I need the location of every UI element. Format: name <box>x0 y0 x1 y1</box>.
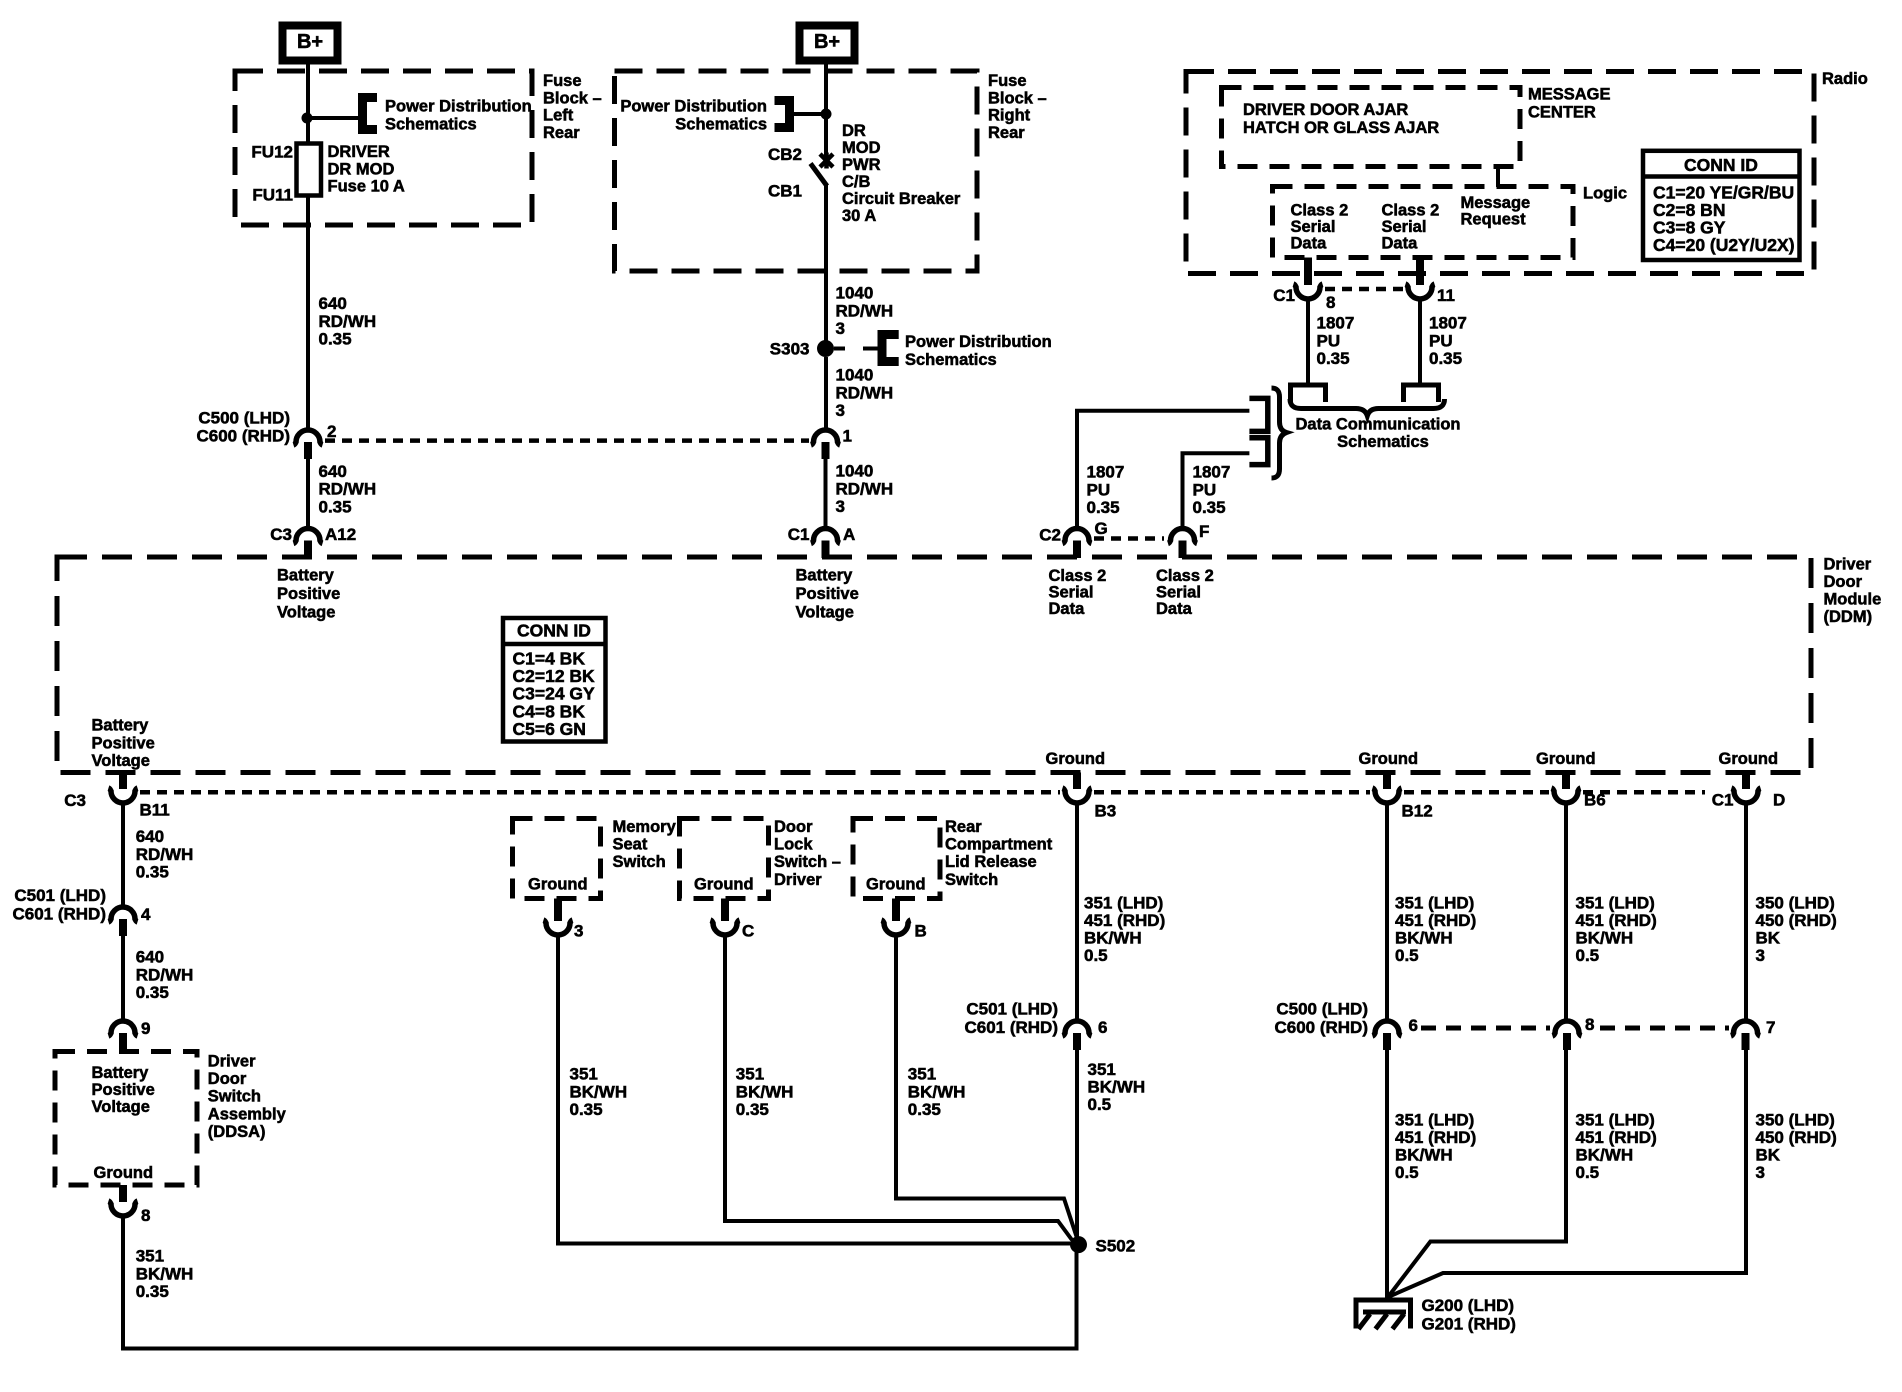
svg-text:Left: Left <box>543 107 574 125</box>
splice S303 <box>817 340 834 357</box>
svg-text:Class 2: Class 2 <box>1156 567 1214 585</box>
radio connector C1 pin 8 <box>1304 258 1312 286</box>
svg-text:HATCH OR GLASS AJAR: HATCH OR GLASS AJAR <box>1243 119 1439 137</box>
svg-text:0.35: 0.35 <box>1087 498 1120 517</box>
svg-text:B: B <box>915 922 927 941</box>
svg-text:Schematics: Schematics <box>1337 433 1429 451</box>
svg-text:640: 640 <box>319 462 347 481</box>
svg-text:0.35: 0.35 <box>570 1100 603 1119</box>
svg-text:CONN ID: CONN ID <box>1684 155 1758 175</box>
svg-text:Voltage: Voltage <box>796 603 854 621</box>
svg-text:351 (LHD): 351 (LHD) <box>1395 1111 1474 1130</box>
svg-text:PU: PU <box>1429 331 1453 350</box>
svg-text:PU: PU <box>1317 331 1341 350</box>
svg-text:C3: C3 <box>64 791 86 810</box>
svg-text:RD/WH: RD/WH <box>836 479 894 498</box>
svg-text:4: 4 <box>141 905 151 924</box>
svg-text:Serial: Serial <box>1382 218 1427 236</box>
svg-text:Ground: Ground <box>528 876 588 894</box>
dashed link between pins G and F <box>1094 536 1164 541</box>
fuse block - right rear dashed box <box>615 71 978 271</box>
svg-text:0.5: 0.5 <box>1395 946 1419 965</box>
svg-text:DRIVER: DRIVER <box>328 143 390 161</box>
svg-text:Power Distribution: Power Distribution <box>905 333 1052 351</box>
svg-text:Ground: Ground <box>1359 750 1419 768</box>
svg-text:451 (RHD): 451 (RHD) <box>1576 1128 1657 1147</box>
svg-text:D: D <box>1773 791 1785 810</box>
connector pin B at rear compartment lid release switch <box>892 899 900 922</box>
svg-text:BK/WH: BK/WH <box>1576 929 1634 948</box>
svg-text:350 (LHD): 350 (LHD) <box>1756 1111 1835 1130</box>
svg-text:Message: Message <box>1461 194 1531 212</box>
svg-text:C5=6 GN: C5=6 GN <box>513 719 586 739</box>
svg-text:0.35: 0.35 <box>1193 498 1226 517</box>
connector pin 8 (right) <box>1553 1021 1582 1036</box>
svg-text:351: 351 <box>570 1065 598 1084</box>
node: junction dot on B+ feed <box>302 113 313 124</box>
svg-text:11: 11 <box>1437 286 1455 305</box>
svg-text:BK/WH: BK/WH <box>136 1264 194 1283</box>
svg-text:0.5: 0.5 <box>1576 946 1600 965</box>
svg-text:C1: C1 <box>1712 791 1734 810</box>
logic dashed box <box>1273 187 1574 258</box>
svg-text:0.5: 0.5 <box>1084 946 1108 965</box>
svg-text:Data: Data <box>1291 235 1328 253</box>
svg-text:0.5: 0.5 <box>1088 1095 1112 1114</box>
svg-text:G: G <box>1095 519 1108 538</box>
node: junction dot on breaker feed <box>821 109 832 120</box>
wire: D to connector 7, circuit 350/450 BK 3 <box>1744 803 1748 1020</box>
svg-text:S303: S303 <box>770 340 810 359</box>
svg-text:PU: PU <box>1193 480 1217 499</box>
svg-text:0.35: 0.35 <box>1429 349 1462 368</box>
svg-text:Driver: Driver <box>1824 556 1872 574</box>
off-page connector bracket (power distribution schematics, right) <box>775 101 790 128</box>
svg-text:C2: C2 <box>1039 526 1061 545</box>
svg-text:8: 8 <box>1326 293 1335 312</box>
wire: connector 4 to connector 9, circuit 640 RD/WH 0.35 <box>121 936 125 1020</box>
brace grouping DDM class 2 wires <box>1272 388 1287 478</box>
svg-text:Schematics: Schematics <box>385 116 477 134</box>
svg-text:RD/WH: RD/WH <box>136 845 194 864</box>
svg-text:BK/WH: BK/WH <box>736 1082 794 1101</box>
svg-text:Module: Module <box>1824 591 1882 609</box>
wire: fuse to connector C500 pin 2, circuit 640 RD/WH 0.35 <box>306 196 310 429</box>
svg-text:7: 7 <box>1766 1018 1775 1037</box>
svg-text:2: 2 <box>327 422 336 441</box>
svg-text:BK/WH: BK/WH <box>1576 1146 1634 1165</box>
svg-text:Door: Door <box>208 1070 247 1088</box>
svg-text:1807: 1807 <box>1429 314 1467 333</box>
svg-text:C/B: C/B <box>842 173 871 191</box>
connector pin B12 at DDM bottom <box>1383 773 1391 790</box>
door lock switch - driver dashed box <box>680 819 769 899</box>
svg-text:Positive: Positive <box>92 734 155 752</box>
svg-text:0.35: 0.35 <box>908 1100 941 1119</box>
connector pin C at door lock switch <box>721 899 729 922</box>
fuse block - left rear dashed box <box>235 71 532 225</box>
svg-text:Serial: Serial <box>1049 584 1094 602</box>
svg-text:C601 (RHD): C601 (RHD) <box>964 1018 1058 1037</box>
radio module dashed box <box>1186 72 1814 274</box>
rear compartment lid release switch dashed box <box>853 819 940 899</box>
svg-text:CENTER: CENTER <box>1528 104 1596 122</box>
svg-text:BK: BK <box>1756 1146 1781 1165</box>
svg-text:C601 (RHD): C601 (RHD) <box>12 905 106 924</box>
svg-text:RD/WH: RD/WH <box>836 383 894 402</box>
wire: memory seat switch to S502, circuit 351 BK/WH 0.35 <box>558 936 1071 1244</box>
wire: connector 7 to ground G200, circuit 350/450 BK 3 <box>1388 1050 1746 1297</box>
battery feed B+ terminal (left fuse block) <box>283 26 338 61</box>
svg-text:351: 351 <box>908 1065 936 1084</box>
svg-text:351 (LHD): 351 (LHD) <box>1084 894 1163 913</box>
connector pin 9 at DDSA <box>109 1021 138 1036</box>
svg-text:C1: C1 <box>1273 286 1295 305</box>
svg-text:0.35: 0.35 <box>136 863 169 882</box>
svg-text:Fuse: Fuse <box>543 72 582 90</box>
svg-text:C600 (RHD): C600 (RHD) <box>196 427 290 446</box>
off-page connector bracket (power distribution schematics) <box>363 98 378 130</box>
wire: B6 to connector 8 (right), circuit 351/451 BK/WH 0.5 <box>1564 803 1568 1020</box>
svg-text:Data Communication: Data Communication <box>1295 416 1460 434</box>
svg-text:450 (RHD): 450 (RHD) <box>1756 911 1837 930</box>
svg-text:0.35: 0.35 <box>136 983 169 1002</box>
svg-text:6: 6 <box>1098 1018 1107 1037</box>
svg-text:0.35: 0.35 <box>319 330 352 349</box>
svg-text:MESSAGE: MESSAGE <box>1528 86 1611 104</box>
svg-text:Class 2: Class 2 <box>1049 567 1107 585</box>
svg-text:Door: Door <box>1824 573 1863 591</box>
svg-text:RD/WH: RD/WH <box>136 965 194 984</box>
svg-text:Serial: Serial <box>1291 218 1336 236</box>
svg-text:Switch: Switch <box>945 871 998 889</box>
svg-text:B3: B3 <box>1095 802 1117 821</box>
svg-text:PWR: PWR <box>842 156 881 174</box>
wire: B12 to connector 6 (right), circuit 351/451 BK/WH 0.5 <box>1385 803 1389 1020</box>
svg-text:351 (LHD): 351 (LHD) <box>1576 1111 1655 1130</box>
connector pin B3 at DDM bottom <box>1073 773 1081 790</box>
svg-text:BK/WH: BK/WH <box>570 1082 628 1101</box>
svg-text:Voltage: Voltage <box>92 1098 150 1116</box>
svg-text:0.5: 0.5 <box>1395 1163 1419 1182</box>
wire: connector 1 to connector C1 pin A, circuit 1040 RD/WH 3 <box>824 459 828 527</box>
svg-text:FU12: FU12 <box>251 143 293 162</box>
svg-text:Block –: Block – <box>988 89 1047 107</box>
wire: message center to logic block (message request) <box>1496 167 1500 188</box>
svg-text:9: 9 <box>141 1019 150 1038</box>
svg-text:BK/WH: BK/WH <box>1395 929 1453 948</box>
svg-text:DR MOD: DR MOD <box>328 160 395 178</box>
svg-text:640: 640 <box>136 948 164 967</box>
svg-text:3: 3 <box>574 922 583 941</box>
svg-text:Circuit Breaker: Circuit Breaker <box>842 190 961 208</box>
svg-text:Ground: Ground <box>1046 750 1106 768</box>
wire: radio pin 8 down, circuit 1807 PU 0.35 <box>1306 300 1310 384</box>
wire: door lock switch to S502, circuit 351 BK/WH 0.35 <box>725 936 1072 1241</box>
svg-text:1040: 1040 <box>836 366 874 385</box>
svg-text:451 (RHD): 451 (RHD) <box>1576 911 1657 930</box>
circuit breaker CB1/CB2 DR MOD PWR C/B 30 A <box>820 153 833 169</box>
svg-text:0.35: 0.35 <box>736 1100 769 1119</box>
svg-text:640: 640 <box>136 827 164 846</box>
wire: B3 to connector 6, circuit 351/451 BK/WH 0.5 <box>1075 803 1079 1020</box>
svg-text:B11: B11 <box>140 801 170 820</box>
svg-text:3: 3 <box>1756 1163 1765 1182</box>
connector pin 7 <box>1731 1021 1760 1036</box>
svg-text:Power Distribution: Power Distribution <box>620 98 767 116</box>
svg-text:C500 (LHD): C500 (LHD) <box>198 409 290 428</box>
svg-text:F: F <box>1199 522 1209 541</box>
svg-text:0.5: 0.5 <box>1576 1163 1600 1182</box>
wire: connector 6 to splice S502, circuit 351 BK/WH 0.5 <box>1075 1050 1079 1244</box>
radio connector C1 pin 11 <box>1416 258 1424 286</box>
svg-text:1040: 1040 <box>836 462 874 481</box>
svg-text:C501 (LHD): C501 (LHD) <box>14 886 106 905</box>
svg-text:Schematics: Schematics <box>675 116 767 134</box>
svg-text:Assembly: Assembly <box>208 1105 287 1123</box>
svg-text:Rear: Rear <box>543 124 580 142</box>
svg-text:Ground: Ground <box>94 1164 154 1182</box>
svg-text:3: 3 <box>836 319 845 338</box>
svg-text:Ground: Ground <box>1536 750 1596 768</box>
wire: DDM pin G to bracket, circuit 1807 PU 0.35 <box>1077 411 1249 527</box>
svg-text:351: 351 <box>1088 1060 1116 1079</box>
svg-text:RD/WH: RD/WH <box>319 312 377 331</box>
wire: rear compartment switch to S502, circuit 351 BK/WH 0.35 <box>896 936 1077 1239</box>
svg-text:Radio: Radio <box>1822 70 1868 88</box>
svg-text:350 (LHD): 350 (LHD) <box>1756 894 1835 913</box>
wire: connector 6 to ground G200, circuit 351/451 BK/WH 0.5 <box>1385 1050 1389 1298</box>
svg-text:Door: Door <box>774 818 813 836</box>
svg-text:C1: C1 <box>788 525 810 544</box>
svg-text:6: 6 <box>1409 1016 1418 1035</box>
svg-text:CB2: CB2 <box>768 145 802 164</box>
goes-to bracket under radio pin 8 wire <box>1291 385 1326 402</box>
dotted harness line under DDM <box>140 790 1060 795</box>
svg-text:1: 1 <box>843 427 852 446</box>
svg-text:Rear: Rear <box>945 818 982 836</box>
svg-text:B+: B+ <box>297 31 323 53</box>
radio CONN ID table <box>1643 151 1800 260</box>
battery feed B+ terminal (right fuse block) <box>800 26 855 61</box>
svg-text:1807: 1807 <box>1087 463 1125 482</box>
svg-text:1807: 1807 <box>1193 463 1231 482</box>
svg-text:Data: Data <box>1049 600 1086 618</box>
dashed harness link between connector pins 2 and 1 <box>325 438 809 443</box>
wire: junction to off-page bracket <box>307 116 360 120</box>
svg-text:Lock: Lock <box>774 836 813 854</box>
svg-text:CB1: CB1 <box>768 182 802 201</box>
svg-text:PU: PU <box>1087 480 1111 499</box>
svg-text:DRIVER DOOR AJAR: DRIVER DOOR AJAR <box>1243 101 1408 119</box>
svg-text:0.35: 0.35 <box>136 1282 169 1301</box>
svg-text:Right: Right <box>988 107 1031 125</box>
svg-text:Class 2: Class 2 <box>1291 202 1349 220</box>
svg-text:8: 8 <box>1585 1015 1594 1034</box>
svg-text:450 (RHD): 450 (RHD) <box>1756 1128 1837 1147</box>
wire: breaker to splice S303, circuit 1040 RD/WH 3 <box>824 184 828 341</box>
svg-text:Block –: Block – <box>543 89 602 107</box>
svg-text:MOD: MOD <box>842 139 881 157</box>
svg-text:351: 351 <box>136 1247 164 1266</box>
svg-text:Class 2: Class 2 <box>1382 202 1440 220</box>
wire: B+ down to circuit breaker <box>824 60 828 158</box>
svg-text:Data: Data <box>1156 600 1193 618</box>
wire: B11 to connector 4, circuit 640 RD/WH 0.35 <box>121 803 125 906</box>
goes-to bracket under radio pin 11 wire <box>1404 385 1439 402</box>
connector pin 3 at memory seat switch <box>554 899 562 922</box>
ground G200 (LHD) / G201 (RHD) <box>1356 1300 1411 1329</box>
svg-text:(DDM): (DDM) <box>1824 608 1873 626</box>
svg-text:451 (RHD): 451 (RHD) <box>1084 911 1165 930</box>
svg-text:Switch: Switch <box>208 1088 261 1106</box>
svg-text:1040: 1040 <box>836 284 874 303</box>
svg-text:Logic: Logic <box>1583 185 1627 203</box>
off-page connector bracket at S303 (power distribution schematics) <box>882 335 899 362</box>
svg-text:A12: A12 <box>325 525 356 544</box>
svg-text:(DDSA): (DDSA) <box>208 1123 266 1141</box>
fuse FU12/FU11 DRIVER DR MOD Fuse 10 A <box>297 144 322 196</box>
svg-text:Schematics: Schematics <box>905 351 997 369</box>
svg-text:Ground: Ground <box>866 876 926 894</box>
svg-text:451 (RHD): 451 (RHD) <box>1395 911 1476 930</box>
svg-text:Memory: Memory <box>613 818 677 836</box>
goes-to bracket for DDM class 2 wire F <box>1249 438 1267 465</box>
svg-text:451 (RHD): 451 (RHD) <box>1395 1128 1476 1147</box>
svg-text:FU11: FU11 <box>252 186 293 205</box>
connector pin F at DDM <box>1168 529 1197 544</box>
svg-text:Switch: Switch <box>613 853 666 871</box>
svg-text:Fuse 10 A: Fuse 10 A <box>328 178 405 196</box>
connector C500/C600 pin 1 <box>811 430 840 445</box>
svg-text:G200 (LHD): G200 (LHD) <box>1422 1296 1515 1315</box>
svg-text:C500 (LHD): C500 (LHD) <box>1276 1000 1368 1019</box>
svg-text:Ground: Ground <box>694 876 754 894</box>
svg-text:BK/WH: BK/WH <box>908 1082 966 1101</box>
svg-text:Driver: Driver <box>208 1053 256 1071</box>
svg-text:Lid Release: Lid Release <box>945 853 1037 871</box>
svg-text:0.35: 0.35 <box>319 497 352 516</box>
svg-text:351: 351 <box>736 1065 764 1084</box>
goes-to bracket for DDM class 2 wire G <box>1249 398 1267 431</box>
wire: connector 2 to connector C3 pin A12, circuit 640 RD/WH 0.35 <box>306 459 310 527</box>
svg-text:RD/WH: RD/WH <box>319 480 377 499</box>
svg-text:8: 8 <box>141 1206 150 1225</box>
svg-text:Driver: Driver <box>774 871 822 889</box>
svg-text:S502: S502 <box>1096 1237 1136 1256</box>
brace grouping radio data wires <box>1290 399 1445 416</box>
wire: S303 to connector pin 1, circuit 1040 RD/WH 3 <box>824 357 828 429</box>
wire: DDM pin F to bracket, circuit 1807 PU 0.35 <box>1183 453 1250 527</box>
DDM CONN ID table <box>503 618 606 742</box>
svg-text:Battery: Battery <box>92 717 150 735</box>
wire: radio pin 11 down, circuit 1807 PU 0.35 <box>1418 300 1422 384</box>
svg-text:Serial: Serial <box>1156 584 1201 602</box>
svg-text:Seat: Seat <box>613 836 648 854</box>
driver door switch assembly (DDSA) dashed box <box>55 1052 197 1186</box>
svg-text:Voltage: Voltage <box>92 752 150 770</box>
svg-text:Battery: Battery <box>92 1064 150 1082</box>
svg-text:351 (LHD): 351 (LHD) <box>1576 894 1655 913</box>
svg-text:B12: B12 <box>1402 802 1433 821</box>
svg-text:A: A <box>843 525 855 544</box>
svg-text:Voltage: Voltage <box>277 603 335 621</box>
svg-text:Switch –: Switch – <box>774 853 841 871</box>
dashed link between pins 8 and 7 <box>1600 1026 1729 1031</box>
svg-text:1807: 1807 <box>1317 314 1355 333</box>
svg-text:30 A: 30 A <box>842 207 876 225</box>
svg-text:3: 3 <box>836 401 845 420</box>
svg-text:C: C <box>742 922 754 941</box>
svg-text:Rear: Rear <box>988 124 1025 142</box>
wire: B+ down into fuse block to fuse FU12 <box>306 60 310 144</box>
svg-text:B+: B+ <box>814 31 840 53</box>
memory seat switch dashed box <box>513 819 601 899</box>
svg-text:DR: DR <box>842 122 866 140</box>
svg-text:Positive: Positive <box>796 585 859 603</box>
svg-text:Compartment: Compartment <box>945 836 1053 854</box>
svg-text:351 (LHD): 351 (LHD) <box>1395 894 1474 913</box>
svg-text:BK/WH: BK/WH <box>1084 929 1142 948</box>
dashed link between radio pins 8 and 11 <box>1325 287 1404 292</box>
connector pin 8 at DDSA bottom <box>119 1185 127 1202</box>
svg-text:BK/WH: BK/WH <box>1395 1146 1453 1165</box>
svg-text:BK/WH: BK/WH <box>1088 1078 1146 1097</box>
svg-text:Power Distribution: Power Distribution <box>385 98 532 116</box>
dashed link between pins 6 and 8 <box>1421 1026 1550 1031</box>
svg-text:640: 640 <box>319 294 347 313</box>
svg-text:BK: BK <box>1756 929 1781 948</box>
svg-text:Positive: Positive <box>92 1081 155 1099</box>
svg-text:Positive: Positive <box>277 585 340 603</box>
svg-text:3: 3 <box>1756 946 1765 965</box>
svg-text:C501 (LHD): C501 (LHD) <box>966 1000 1058 1019</box>
message center dashed box <box>1222 88 1521 167</box>
svg-text:C3: C3 <box>270 525 292 544</box>
svg-text:Ground: Ground <box>1719 750 1779 768</box>
wire stubs from S303 to off-page bracket <box>834 347 845 351</box>
splice S502 <box>1070 1236 1087 1253</box>
svg-text:C4=20 (U2Y/U2X): C4=20 (U2Y/U2X) <box>1653 235 1795 255</box>
connector pin B6 at DDM bottom <box>1562 773 1570 790</box>
svg-text:Battery: Battery <box>796 567 854 585</box>
svg-text:CONN ID: CONN ID <box>517 621 591 641</box>
svg-text:B6: B6 <box>1584 791 1606 810</box>
wire: DDSA pin 8 to S502, circuit 351 BK/WH 0.35 <box>123 1216 1077 1349</box>
svg-text:Request: Request <box>1461 211 1527 229</box>
svg-text:C600 (RHD): C600 (RHD) <box>1274 1018 1368 1037</box>
wire: bracket to junction on breaker feed <box>790 112 827 116</box>
svg-text:Battery: Battery <box>277 567 335 585</box>
driver door module (DDM) dashed box <box>57 557 1811 773</box>
svg-text:Data: Data <box>1382 235 1419 253</box>
svg-text:RD/WH: RD/WH <box>836 301 894 320</box>
svg-text:Fuse: Fuse <box>988 72 1027 90</box>
svg-text:0.35: 0.35 <box>1317 349 1350 368</box>
svg-text:3: 3 <box>836 497 845 516</box>
wire: connector 8 to ground G200, circuit 351/451 BK/WH 0.5 <box>1388 1050 1566 1297</box>
svg-text:G201 (RHD): G201 (RHD) <box>1422 1315 1516 1334</box>
